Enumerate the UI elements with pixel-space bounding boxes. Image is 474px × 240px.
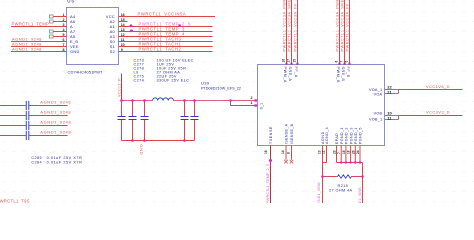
svg-text:PWRCTL1_TACH2: PWRCTL1_TACH2 — [139, 47, 182, 52]
svg-text:23: 23 — [333, 150, 337, 154]
svg-text:PGND_4: PGND_4 — [354, 127, 358, 144]
svg-text:EPAD: EPAD — [335, 133, 339, 144]
svg-text:19: 19 — [342, 150, 346, 154]
svg-text:21: 21 — [387, 89, 392, 94]
svg-text:17: 17 — [286, 59, 290, 63]
svg-text:18: 18 — [347, 150, 351, 154]
svg-text:PWRCTL1_TEMP: PWRCTL1_TEMP — [12, 22, 50, 27]
svg-text:24: 24 — [356, 150, 360, 154]
svg-text:VOB_1: VOB_1 — [369, 117, 382, 121]
svg-text:S2: S2 — [110, 49, 116, 54]
svg-text:C284: C284 — [31, 161, 42, 165]
svg-text:AGND1_9248: AGND1_9248 — [40, 120, 71, 125]
svg-text:GND: GND — [139, 144, 144, 155]
svg-text:ISENSE_A: ISENSE_A — [285, 123, 289, 144]
svg-text:SRE_A: SRE_A — [288, 67, 292, 82]
svg-text:PGND1_ISNB: PGND1_ISNB — [358, 187, 362, 203]
svg-text:330UF 25V ELC: 330UF 25V ELC — [157, 79, 190, 83]
svg-text:PWRCTL1_VCC3A_PWM_2: PWRCTL1_VCC3A_PWM_2 — [335, 0, 339, 52]
svg-text:VOB: VOB — [374, 112, 383, 116]
svg-text:PWRCTL1_VCC3A_SRE_1: PWRCTL1_VCC3A_SRE_1 — [287, 0, 291, 52]
svg-text:PWRCTL1_TEMP_2_S: PWRCTL1_TEMP_2_S — [266, 163, 270, 203]
svg-text:VCC1V8_D: VCC1V8_D — [426, 84, 450, 89]
svg-text:15: 15 — [292, 59, 296, 63]
svg-text:VOA_1: VOA_1 — [369, 88, 382, 92]
svg-text:16: 16 — [264, 150, 268, 154]
svg-text:PGND_1: PGND_1 — [340, 127, 344, 144]
svg-text:AGND1_9248: AGND1_9248 — [40, 130, 71, 135]
svg-text:14: 14 — [281, 150, 285, 154]
svg-text:0.01uF 25V X7R: 0.01uF 25V X7R — [47, 156, 83, 160]
svg-text:FF_B: FF_B — [346, 67, 350, 78]
svg-text:AGND1_9248: AGND1_9248 — [12, 47, 42, 52]
svg-text:PGND_5: PGND_5 — [359, 127, 363, 144]
svg-text:2: 2 — [251, 96, 253, 100]
svg-text:PWM_B: PWM_B — [336, 67, 340, 83]
svg-text:PWRCTL1_VCCIN5A: PWRCTL1_VCCIN5A — [138, 12, 187, 17]
svg-text:1: 1 — [251, 101, 253, 105]
svg-text:PWRCTL1_VCC3A_FF_B2: PWRCTL1_VCC3A_FF_B2 — [345, 0, 349, 52]
svg-text:AGND1_9248: AGND1_9248 — [40, 110, 71, 115]
svg-text:VCC12_P: VCC12_P — [118, 78, 122, 97]
svg-text:S_1: S_1 — [260, 103, 264, 110]
svg-text:SRE_B: SRE_B — [341, 67, 345, 82]
svg-text:6: 6 — [334, 61, 338, 63]
svg-text:PWRCTL1_T9S: PWRCTL1_T9S — [0, 198, 30, 203]
svg-text:R215: R215 — [338, 184, 349, 188]
svg-text:U39: U39 — [201, 81, 210, 86]
svg-text:PWRCTL1_VCC3A_SRE_2: PWRCTL1_VCC3A_SRE_2 — [340, 0, 344, 52]
svg-text:AGND1_ISNB: AGND1_ISNB — [317, 182, 321, 203]
svg-text:AGND1_9248: AGND1_9248 — [40, 100, 71, 105]
svg-text:5: 5 — [344, 61, 348, 63]
svg-text:PWRCTL1_VCC3A_PWM_1: PWRCTL1_VCC3A_PWM_1 — [282, 0, 286, 52]
svg-text:PTD08D210W_EFS_22: PTD08D210W_EFS_22 — [201, 86, 241, 90]
svg-text:PWRCTL1_VCC3A_FF_A1: PWRCTL1_VCC3A_FF_A1 — [293, 0, 297, 52]
svg-text:16: 16 — [281, 59, 285, 63]
svg-text:TSENSE: TSENSE — [269, 126, 273, 144]
svg-text:27 OHM 4A: 27 OHM 4A — [329, 189, 353, 193]
svg-text:C285: C285 — [31, 156, 42, 160]
svg-text:U6: U6 — [67, 0, 75, 3]
svg-text:ISENSE_B: ISENSE_B — [290, 123, 294, 144]
svg-text:PWM_A: PWM_A — [283, 67, 287, 83]
svg-text:0.01uF 25V X7R: 0.01uF 25V X7R — [47, 161, 83, 165]
svg-text:7: 7 — [339, 61, 343, 63]
svg-text:VCC3V3_D: VCC3V3_D — [426, 109, 450, 114]
svg-text:8: 8 — [287, 152, 291, 154]
svg-text:C274: C274 — [134, 79, 145, 83]
svg-text:GND: GND — [70, 49, 80, 54]
svg-text:VOA: VOA — [374, 92, 383, 96]
svg-text:CD74HC4051PWT: CD74HC4051PWT — [68, 70, 104, 75]
svg-text:FF_A: FF_A — [294, 67, 298, 78]
svg-text:7: 7 — [337, 152, 341, 154]
svg-text:PGND_3: PGND_3 — [349, 127, 353, 144]
svg-text:PGND_2: PGND_2 — [345, 127, 349, 144]
svg-text:20: 20 — [351, 150, 355, 154]
svg-text:12: 12 — [322, 150, 326, 154]
svg-text:AGND_1: AGND_1 — [325, 127, 329, 144]
